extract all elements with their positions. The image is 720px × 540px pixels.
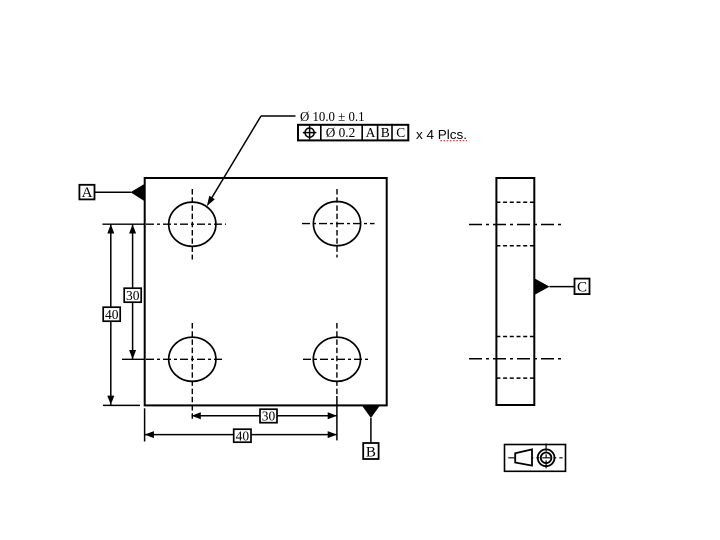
svg-text:x 4 Plcs.: x 4 Plcs. [416, 127, 467, 142]
svg-text:30: 30 [126, 288, 140, 303]
svg-text:B: B [381, 125, 390, 140]
svg-text:40: 40 [236, 428, 250, 443]
svg-text:Ø 0.2: Ø 0.2 [326, 125, 356, 140]
svg-text:B: B [366, 444, 376, 460]
svg-text:C: C [396, 125, 405, 140]
svg-text:Ø 10.0 ± 0.1: Ø 10.0 ± 0.1 [300, 110, 365, 125]
svg-text:30: 30 [262, 409, 276, 424]
svg-text:40: 40 [105, 307, 119, 322]
svg-text:A: A [82, 185, 93, 201]
svg-text:C: C [577, 279, 587, 295]
svg-text:A: A [366, 125, 376, 140]
